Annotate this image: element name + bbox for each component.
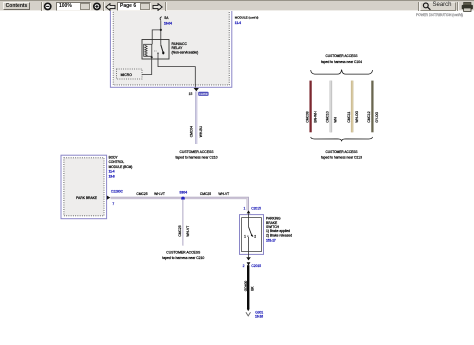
- svg-text:C2280F: C2280F: [199, 92, 208, 96]
- svg-text:CUSTOMER ACCESS: CUSTOMER ACCESS: [166, 251, 201, 255]
- svg-text:151-17: 151-17: [266, 238, 276, 242]
- svg-text:CUSTOMER ACCESS: CUSTOMER ACCESS: [326, 54, 358, 58]
- svg-text:PARK BRAKE: PARK BRAKE: [76, 196, 98, 200]
- svg-text:2: 2: [243, 264, 245, 268]
- svg-text:CONTROL: CONTROL: [109, 160, 125, 164]
- svg-text:11-4: 11-4: [235, 21, 241, 25]
- svg-text:C2015: C2015: [251, 207, 261, 211]
- svg-text:7: 7: [112, 202, 114, 206]
- svg-text:CMC12: CMC12: [367, 111, 371, 122]
- svg-text:taped to harness near C213: taped to harness near C213: [321, 155, 362, 159]
- svg-text:WH-BU: WH-BU: [199, 125, 203, 137]
- svg-text:CUSTOMER ACCESS: CUSTOMER ACCESS: [179, 150, 214, 154]
- svg-text:CMC25: CMC25: [178, 225, 182, 236]
- svg-text:CUSTOMER ACCESS: CUSTOMER ACCESS: [326, 150, 358, 154]
- svg-text:CMC25: CMC25: [200, 192, 211, 196]
- svg-text:BN-WH: BN-WH: [313, 111, 317, 123]
- svg-text:2) Brake released: 2) Brake released: [266, 233, 292, 237]
- svg-text:BK: BK: [251, 286, 255, 291]
- svg-text:POWER DISTRIBUTION (cont'd): POWER DISTRIBUTION (cont'd): [416, 13, 463, 17]
- svg-text:15: 15: [189, 92, 193, 96]
- svg-text:C2280C: C2280C: [111, 190, 124, 194]
- svg-text:taped to harness near C210: taped to harness near C210: [175, 156, 217, 160]
- svg-text:RELAY: RELAY: [172, 46, 184, 50]
- svg-text:13-16: 13-16: [255, 315, 263, 319]
- svg-text:GY-OG: GY-OG: [375, 111, 379, 122]
- svg-text:11-4: 11-4: [109, 169, 115, 173]
- svg-text:WH-VT: WH-VT: [186, 226, 190, 237]
- svg-text:CMC25: CMC25: [136, 192, 147, 196]
- svg-text:MICRO: MICRO: [121, 73, 133, 77]
- svg-text:GD400: GD400: [244, 281, 248, 292]
- svg-text:WH-VT: WH-VT: [154, 192, 165, 196]
- svg-text:WH-OG: WH-OG: [355, 110, 359, 122]
- svg-text:1: 1: [244, 235, 246, 239]
- svg-text:1: 1: [244, 207, 246, 211]
- svg-text:taped to harness near C210: taped to harness near C210: [162, 256, 204, 260]
- svg-text:13-8: 13-8: [109, 174, 115, 178]
- svg-text:BODY: BODY: [109, 156, 119, 160]
- svg-text:CMC04: CMC04: [189, 126, 193, 137]
- svg-text:S304: S304: [179, 191, 187, 195]
- svg-text:CMC11: CMC11: [347, 112, 351, 123]
- svg-text:MODULE (cont'd): MODULE (cont'd): [235, 16, 259, 20]
- svg-text:19-04: 19-04: [164, 22, 172, 26]
- svg-text:C2015: C2015: [251, 264, 261, 268]
- svg-text:taped to harness near C104: taped to harness near C104: [321, 60, 362, 64]
- svg-text:2: 2: [254, 235, 256, 239]
- svg-text:CMC09: CMC09: [305, 111, 309, 122]
- svg-text:MODULE (BCM): MODULE (BCM): [109, 165, 133, 169]
- svg-text:CMC10: CMC10: [326, 111, 330, 122]
- svg-text:WH-VT: WH-VT: [218, 192, 229, 196]
- svg-text:(Non-serviceable): (Non-serviceable): [172, 51, 199, 55]
- svg-text:WH: WH: [334, 116, 338, 122]
